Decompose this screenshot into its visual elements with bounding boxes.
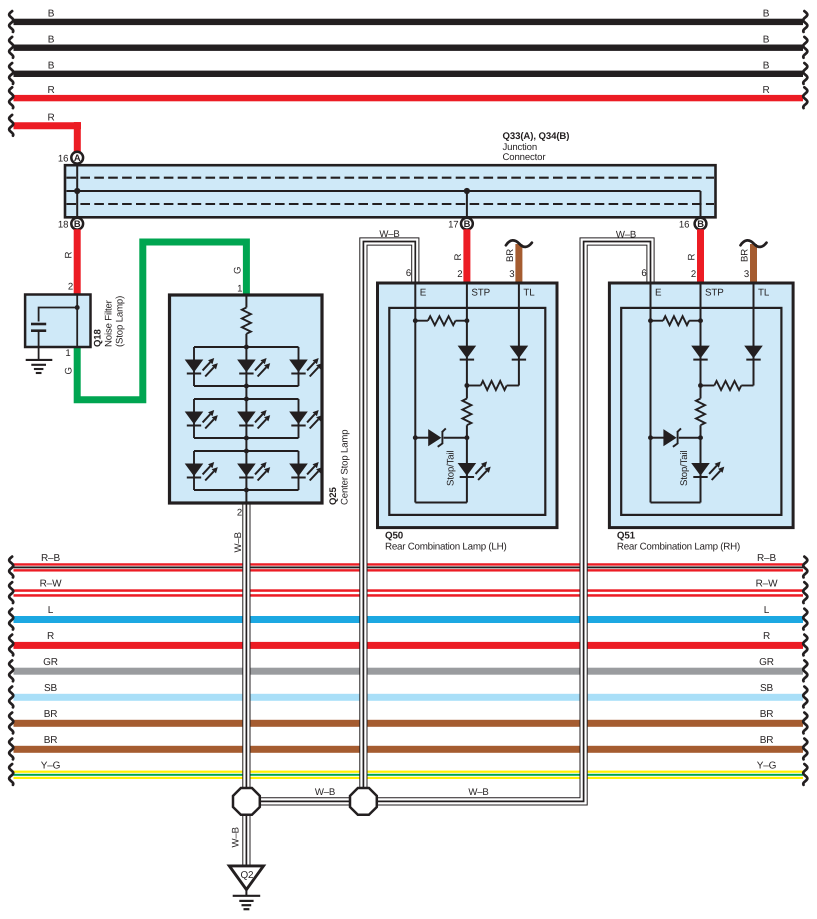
wire Y–G bus [14,771,804,773]
wire W-B riser from octagon J2 to Q50 pin 6 [363,242,415,802]
svg-text:A: A [74,152,81,163]
junction octagon J2 [350,788,377,815]
svg-text:W–B: W–B [379,229,399,240]
wire G noise filter to center stop lamp [77,242,246,400]
svg-text:3: 3 [744,269,749,280]
wire centre line Q25 [245,295,247,308]
svg-text:16: 16 [58,153,68,164]
node top group 3 [244,449,249,454]
svg-text:R: R [763,631,770,642]
svg-text:Connector: Connector [503,152,547,163]
ground symbol below Q2 [245,890,247,896]
node top group 2 [244,397,249,402]
wire B (ground bus 3) [14,71,804,77]
Q50 bottom wire [415,502,467,504]
connector B pin 17 [461,218,473,230]
svg-text:2: 2 [457,269,462,280]
wire B (ground bus 2) [14,45,804,51]
Q51 wire STP vertical [700,283,702,399]
svg-text:W–B: W–B [233,532,244,552]
rear combination lamp Q51 box [609,283,793,528]
Q51 resistor vertical [696,399,705,426]
svg-text:STP: STP [705,288,724,299]
svg-text:Y–G: Y–G [41,760,61,771]
junction connector internal dashed rows [67,177,715,179]
wire R pin18B to Q18 pin 2 [74,229,81,295]
svg-text:(Stop Lamp): (Stop Lamp) [115,296,126,347]
junction connector internal bus line [67,190,701,192]
wire SB bus [14,694,804,701]
LED group 3 rails [194,450,299,452]
LED group 1 x298 [289,360,308,373]
svg-text:18: 18 [58,220,68,231]
Q50 resistor E-STP [415,320,428,322]
svg-text:6: 6 [406,268,411,279]
junction octagon J1 [233,788,260,815]
svg-text:Center Stop Lamp: Center Stop Lamp [340,430,351,505]
wire R–W bus [14,589,804,592]
svg-text:R: R [47,112,54,123]
svg-text:R–B: R–B [41,553,60,564]
Q51 wire E vertical [650,283,652,503]
Q51 wire TL vertical [753,283,755,386]
Q51 resistor STP-TL [701,385,715,387]
svg-text:Q18: Q18 [93,329,104,347]
resistor in Q25 [242,308,251,334]
svg-text:R: R [687,254,698,261]
wire drop to pin 17B [466,191,468,217]
svg-text:R–W: R–W [756,579,778,590]
svg-text:2: 2 [237,508,242,519]
Q50 node E top [413,318,418,323]
svg-text:6: 6 [641,268,646,279]
wire BR bus [14,720,804,727]
svg-text:B: B [763,9,770,20]
LED group 3 x246 [237,464,256,477]
Q51 LED Stop/Tail [691,463,710,476]
Q51 node STP zener [698,435,703,440]
svg-text:Stop/Tail: Stop/Tail [679,451,690,486]
center stop lamp Q25 box [170,295,323,503]
node bottom group 1 [244,384,249,389]
Q51 resistor E-STP [651,320,664,322]
ground connector triangle Q2 [229,866,263,890]
svg-text:B: B [697,218,704,229]
svg-text:R: R [64,252,75,259]
svg-text:G: G [64,367,75,374]
svg-text:Q51: Q51 [617,531,636,542]
node top group 1 [244,345,249,350]
connector B pin 16 right [695,218,707,230]
LED group 2 x298 [289,412,308,425]
ground symbol Q18 [26,359,53,361]
svg-text:2: 2 [68,282,73,293]
svg-text:2: 2 [691,269,696,280]
Q50 wire E vertical [414,283,416,503]
svg-text:G: G [233,267,244,274]
svg-text:Rear Combination Lamp (LH): Rear Combination Lamp (LH) [385,542,506,553]
Q51 node STP top [698,318,703,323]
svg-text:16: 16 [679,220,689,231]
svg-text:R: R [47,85,54,96]
Q50 inner box [389,308,545,515]
svg-text:TL: TL [758,288,770,299]
Q50 diode TL [510,346,529,359]
LED group 2 x194 [185,412,204,425]
wire B (ground bus 1) [14,19,804,25]
svg-text:R–W: R–W [40,579,62,590]
wire R bus [14,642,804,649]
wire GR bus [14,668,804,675]
LED group 1 rails [194,346,299,348]
node bottom group 2 [244,436,249,441]
svg-text:Noise Filter: Noise Filter [104,299,115,347]
wire W-B from Q25 pin 2 down to ground triangle [242,503,250,866]
svg-text:R–B: R–B [757,553,776,564]
svg-text:E: E [420,288,427,299]
noise filter Q18 box [25,295,90,348]
Q51 zener diode [663,429,676,446]
svg-text:W–B: W–B [616,230,636,241]
wire W-B bottom run from octagon J1 to Q51 pin 6 [246,242,650,802]
svg-text:SB: SB [760,683,774,694]
wire L bus [14,616,804,623]
svg-text:L: L [48,605,54,616]
node at 466.9,191 [464,188,470,194]
svg-text:R: R [762,85,769,96]
svg-text:L: L [764,605,770,616]
svg-text:GR: GR [759,657,774,668]
svg-text:Stop/Tail: Stop/Tail [446,451,457,486]
svg-text:B: B [48,35,55,46]
svg-text:BR: BR [505,249,516,262]
svg-text:B: B [763,35,770,46]
svg-text:BR: BR [44,709,58,720]
svg-text:BR: BR [760,735,774,746]
Q50 wire STP vertical [466,283,468,399]
Q50 diode STP [458,346,477,359]
svg-text:Q33(A), Q34(B): Q33(A), Q34(B) [503,131,570,142]
LED group 2 x246 [237,412,256,425]
LED group 3 x298 [289,464,308,477]
Q51 node STP mid [698,383,703,388]
Q50 node STP zener [464,435,469,440]
wire BR bus [14,746,804,753]
svg-text:W–B: W–B [315,787,335,798]
svg-text:GR: GR [43,657,58,668]
Q50 node STP mid [464,383,469,388]
Q50 node STP top [464,318,469,323]
Q51 diode STP [691,346,710,359]
svg-text:Q2: Q2 [240,870,253,881]
LED group 1 x194 [185,360,204,373]
Q50 zener diode [428,429,441,446]
svg-text:Q25: Q25 [328,487,339,505]
Q51 node E top [648,318,653,323]
rear combination lamp Q50 box [378,283,558,528]
svg-text:STP: STP [471,288,490,299]
wire through Q18 [76,295,78,346]
Q50 wire TL vertical [518,283,520,386]
svg-text:B: B [74,218,81,229]
Q51 inner box [621,308,781,515]
Q51 bottom wire [651,502,701,504]
LED group 2 rails [194,398,299,400]
svg-text:W–B: W–B [231,827,242,847]
wire pin16A to pin18B inside connector [76,165,78,217]
wire to capacitor [39,308,78,322]
svg-text:E: E [655,288,662,299]
wire drop to pin 16B right [700,191,702,217]
wire BR to Q51 TL [750,244,757,283]
wire R to junction connector pin 16A [14,122,78,129]
Q50 LED Stop/Tail [458,463,477,476]
svg-text:W–B: W–B [468,787,488,798]
wire R (stop feed bus) [14,95,804,101]
svg-text:B: B [48,61,55,72]
svg-text:R: R [47,631,54,642]
svg-text:SB: SB [44,683,58,694]
wire R–B bus [14,563,804,565]
svg-text:BR: BR [760,709,774,720]
svg-text:B: B [763,61,770,72]
svg-text:Y–G: Y–G [757,760,777,771]
svg-text:B: B [464,218,471,229]
svg-text:17: 17 [448,220,458,231]
svg-text:Rear Combination Lamp (RH): Rear Combination Lamp (RH) [617,542,740,553]
junction connector Q33(A) Q34(B) box [65,165,716,217]
connector B pin 18 [71,218,83,230]
LED group 1 x246 [237,360,256,373]
wire R pin17B to Q50 STP [463,229,470,283]
Q50 resistor vertical [462,399,471,426]
svg-text:BR: BR [44,735,58,746]
wire capacitor to ground [38,332,40,360]
node in Q18 [75,305,80,310]
svg-text:TL: TL [523,288,535,299]
svg-text:3: 3 [509,269,514,280]
Q50 node E zener [413,435,418,440]
connector A pin 16 [71,152,83,164]
svg-text:1: 1 [65,348,70,359]
svg-text:B: B [48,9,55,20]
capacitor C in Q18 [31,323,46,326]
svg-text:Q50: Q50 [385,531,404,542]
node at 77.2,191 [74,188,80,194]
svg-text:1: 1 [237,284,242,295]
Q51 diode TL [744,346,763,359]
svg-text:BR: BR [740,249,751,262]
LED group 3 x194 [185,464,204,477]
Q51 node E zener [648,435,653,440]
svg-text:R: R [453,254,464,261]
node bottom group 3 [244,488,249,493]
wire R pin16B to Q51 STP [697,229,704,283]
Q50 resistor STP-TL [467,385,481,387]
wire BR to Q50 TL [515,244,522,283]
